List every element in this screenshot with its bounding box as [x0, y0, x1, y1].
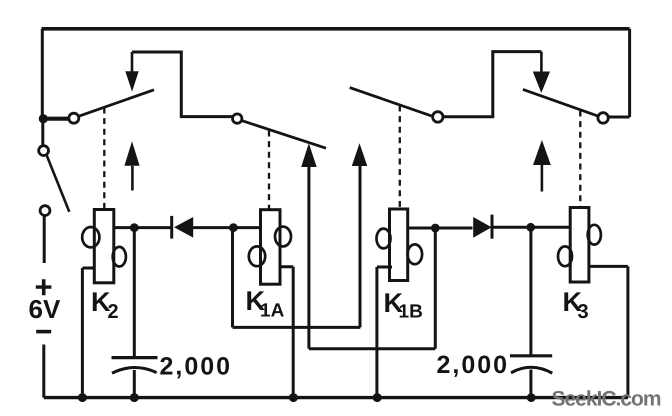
wire coil K1B right lead to diode D2 — [408, 227, 473, 230]
relay coil K1A — [249, 210, 291, 285]
wire capacitor C1 bottom lead — [133, 370, 136, 398]
wire coil K1A right lead — [280, 267, 293, 398]
svg-text:2,000: 2,000 — [437, 351, 510, 379]
label relay K1A — [246, 286, 285, 322]
label relay K3 — [563, 287, 589, 323]
wire battery top lead — [43, 216, 46, 263]
arrow A (points up at contact K1A) — [301, 143, 317, 348]
mechanical link contact K1A to coil K1A (dashed) — [268, 131, 270, 209]
svg-text:3: 3 — [578, 301, 589, 323]
wire coil K2 right lead to diode D1 — [114, 226, 171, 229]
wire bottom bus — [44, 396, 628, 399]
wire left vertical from top bus — [41, 29, 44, 118]
wire diode D1 to coil K1A — [193, 226, 260, 229]
svg-text:2,000: 2,000 — [160, 353, 233, 381]
wire capacitor C1 top lead — [133, 228, 136, 357]
wire cross link to arrow A — [309, 347, 435, 350]
relay contact K3 (switch 4) — [523, 89, 608, 123]
switch S1 (pushbutton, open) — [39, 146, 70, 216]
label relay K2 — [91, 287, 119, 323]
node bottom bus K2 left — [78, 393, 87, 402]
node coil K1A left terminal — [229, 223, 238, 232]
label relay K1B — [384, 288, 423, 323]
svg-text:6V: 6V — [29, 294, 61, 324]
mechanical link contact K2 to coil K2 (dashed) — [103, 108, 105, 209]
svg-text:1A: 1A — [260, 301, 285, 322]
diode D2 (cathode right) — [473, 215, 492, 239]
node battery/switch junction — [39, 114, 48, 123]
wire capacitor C2 top lead — [529, 227, 532, 355]
wire step above contact K2 to contact K1A — [132, 52, 232, 117]
wire coil K1B left lead — [377, 267, 392, 398]
capacitor C1 — [112, 358, 158, 374]
arrow actuating contact K2 (down) — [125, 52, 138, 92]
node bottom bus K1B — [373, 393, 382, 402]
wire junction to pushbutton — [41, 121, 44, 146]
wire junction to contact pivot K2 — [46, 117, 69, 121]
svg-text:2: 2 — [108, 301, 119, 323]
diode D1 (cathode left) — [172, 216, 194, 239]
svg-text:1B: 1B — [399, 302, 423, 323]
relay contact K2 (switch 1) — [69, 90, 154, 123]
arrow B (points up at contact K1B) — [352, 143, 368, 327]
svg-text:SeekIC.com: SeekIC.com — [552, 388, 661, 411]
relay coil K1B — [377, 209, 423, 281]
node capacitor C2 top — [526, 223, 535, 232]
wire contact K3 pivot to top bus — [609, 29, 630, 117]
node bottom bus C1 — [130, 393, 139, 402]
arrow below contact K3 (up) — [533, 140, 551, 192]
relay coil K2 — [82, 210, 126, 283]
wire top bus — [42, 27, 630, 31]
node bottom bus K1A — [289, 393, 298, 402]
mechanical link contact K3 to coil K3 (dashed) — [579, 111, 581, 207]
capacitor C2 — [510, 356, 552, 373]
wire battery bottom lead — [42, 345, 45, 398]
arrow actuating contact K3 (down) — [533, 52, 550, 93]
relay contact K1A (switch 2) — [233, 114, 327, 148]
wire diode D2 to coil K3 — [492, 226, 570, 229]
wire node K1B right down to cross link — [434, 228, 437, 349]
battery B1 6V — [29, 279, 61, 333]
wire coil K2 left lead — [82, 268, 94, 398]
wire K1A node down — [231, 228, 234, 328]
wire contact K1B pivot to step — [443, 52, 541, 117]
wire cross link to arrow B — [233, 326, 361, 329]
relay contact K1B (switch 3) — [350, 88, 443, 123]
relay coil K3 — [558, 208, 601, 283]
node bottom bus C2 — [527, 393, 536, 402]
arrow below contact K2 (up) — [124, 141, 139, 190]
wire coil K3 right lead — [589, 266, 628, 397]
node coil K2 / capacitor C1 — [130, 223, 139, 232]
node coil K1B right terminal — [431, 224, 440, 233]
mechanical link contact K1B to coil K1B (dashed) — [399, 106, 401, 208]
wire capacitor C2 bottom lead — [529, 370, 532, 398]
